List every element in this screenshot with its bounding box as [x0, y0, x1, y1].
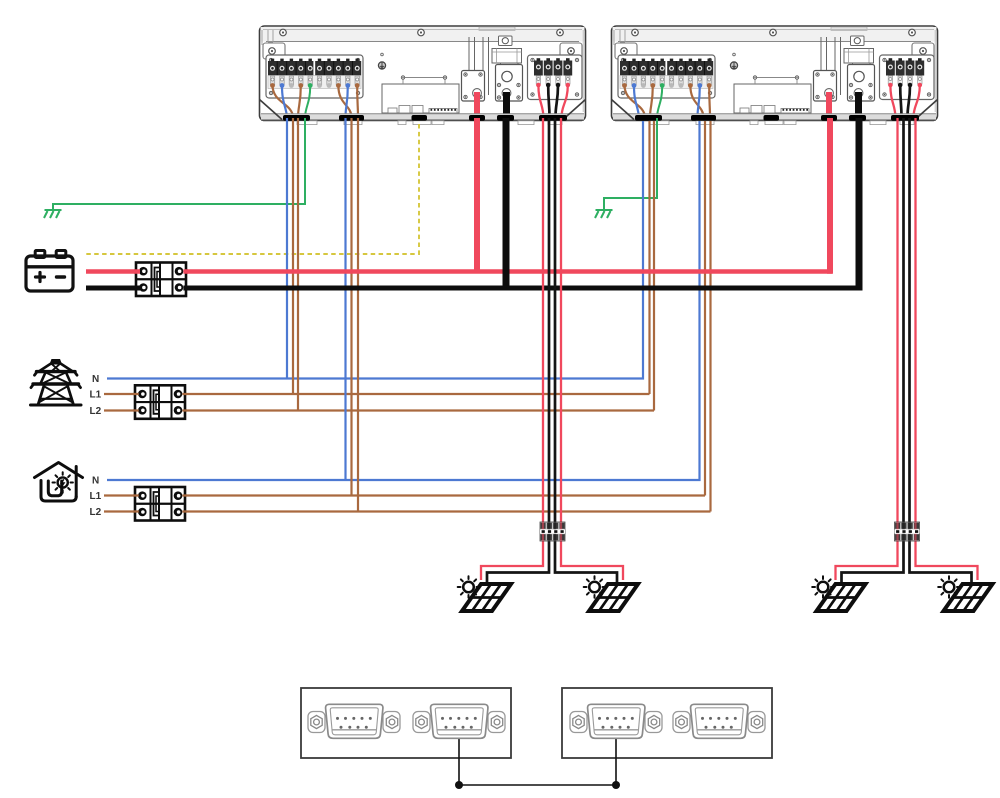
- comm box 2: [562, 688, 772, 758]
- load N wire blue: [107, 121, 700, 480]
- grid L2 wire brown: [104, 121, 654, 411]
- battery + drop U2 red: [827, 118, 833, 274]
- junction dot left: [455, 781, 463, 789]
- breaker grid wire stubs: [133, 394, 187, 411]
- svg-text:N: N: [92, 374, 99, 385]
- grid N drop U1 blue: [286, 118, 288, 379]
- battery icon: [26, 251, 73, 292]
- house bulb: [53, 472, 73, 492]
- junction dot right: [612, 781, 620, 789]
- breaker load: [135, 487, 185, 521]
- grid L1 drop U1 brown: [292, 118, 294, 394]
- svg-text:L2: L2: [90, 507, 102, 518]
- ground wire U2 green: [604, 118, 657, 210]
- PV set U1: [458, 118, 638, 611]
- battery - drop U1 black: [503, 118, 510, 288]
- breaker grid: [135, 385, 185, 419]
- breaker load wire stubs: [133, 496, 187, 512]
- ground symbol U1: [44, 210, 62, 218]
- load L2 wire brown: [104, 121, 711, 512]
- battery plus mark: [36, 273, 45, 282]
- load N drop U1 blue: [344, 118, 346, 480]
- battery minus mark: [57, 275, 65, 278]
- battery + drop U1 red: [474, 118, 480, 273]
- comm cable between boxes: [459, 739, 616, 786]
- svg-text:N: N: [92, 476, 99, 487]
- ground wire U1 green: [53, 118, 305, 210]
- DB9 port 2: [413, 704, 505, 738]
- battery - bus black: [86, 286, 861, 291]
- grid N wire blue: [107, 121, 643, 379]
- load L2 drop U1 brown: [357, 118, 359, 512]
- ground symbol U2: [595, 210, 613, 218]
- battery - drop U2 black: [856, 118, 863, 291]
- grid tower icon: [31, 360, 82, 405]
- load L1 drop U1 brown: [350, 118, 352, 496]
- inverter U2: [612, 26, 938, 125]
- DB9 port 1: [308, 704, 400, 738]
- svg-text:L2: L2: [90, 406, 102, 417]
- DB9 port 3: [570, 704, 662, 738]
- grid L2 drop U1 brown: [297, 118, 299, 411]
- comm box 1: [301, 688, 511, 758]
- BMS comm cable yellow dashed: [86, 124, 419, 254]
- breaker battery: [136, 263, 186, 297]
- house load icon: [35, 463, 83, 502]
- inverter U1: [260, 26, 586, 125]
- grid L1 wire brown: [104, 121, 650, 394]
- battery + bus red: [86, 269, 832, 274]
- breaker battery wire stubs: [134, 269, 188, 274]
- load L1 wire brown: [104, 121, 705, 496]
- svg-text:L1: L1: [90, 390, 102, 401]
- DB9 port 4: [673, 704, 765, 738]
- svg-text:L1: L1: [90, 491, 102, 502]
- PV set U2: [812, 118, 992, 611]
